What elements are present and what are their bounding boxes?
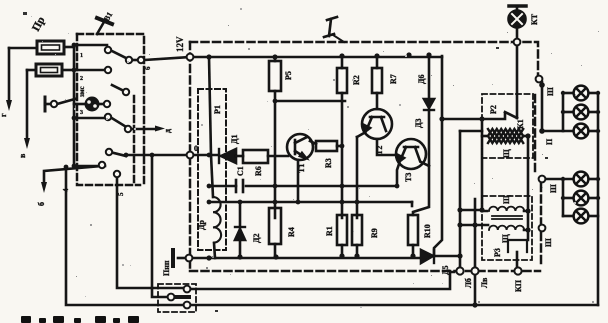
svg-text:3: 3 — [80, 110, 83, 116]
svg-text:Д6: Д6 — [417, 74, 426, 84]
svg-text:12V: 12V — [175, 36, 185, 52]
svg-text:Др: Др — [197, 219, 206, 230]
svg-text:б: б — [37, 202, 46, 206]
svg-text:Д3: Д3 — [414, 118, 423, 128]
svg-text:R7: R7 — [389, 74, 398, 84]
svg-text:Р5: Р5 — [284, 71, 293, 80]
svg-text:К1: К1 — [516, 119, 525, 129]
svg-text:д: д — [163, 129, 172, 133]
svg-text:Лв: Лв — [480, 277, 489, 288]
svg-text:Р2: Р2 — [489, 105, 498, 114]
svg-text:Лб: Лб — [464, 278, 473, 288]
svg-text:Р1: Р1 — [213, 105, 222, 114]
svg-text:R3: R3 — [324, 158, 333, 168]
svg-text:в: в — [18, 153, 27, 158]
svg-text:г: г — [0, 113, 8, 117]
svg-text:КП: КП — [514, 279, 523, 292]
svg-text:змс: змс — [78, 86, 86, 97]
svg-text:R1: R1 — [325, 226, 334, 236]
svg-text:КТ: КТ — [530, 13, 539, 25]
svg-text:Пнп: Пнп — [162, 260, 171, 276]
svg-text:R6: R6 — [254, 166, 263, 176]
svg-text:Щ: Щ — [502, 149, 511, 158]
svg-text:R10: R10 — [423, 224, 432, 238]
svg-text:R9: R9 — [370, 228, 379, 238]
svg-text:П: П — [545, 138, 554, 145]
svg-text:Д5: Д5 — [441, 265, 450, 275]
svg-text:6: 6 — [144, 66, 152, 70]
svg-text:Ш: Ш — [544, 238, 553, 247]
svg-text:Щ: Щ — [502, 195, 511, 204]
svg-text:0: 0 — [194, 144, 198, 153]
svg-text:Щ: Щ — [501, 234, 510, 243]
svg-text:Т1: Т1 — [297, 164, 306, 173]
svg-text:Д1: Д1 — [230, 134, 239, 144]
svg-text:Т3: Т3 — [404, 173, 413, 182]
svg-text:С1: С1 — [236, 166, 245, 176]
svg-text:1: 1 — [80, 53, 83, 59]
svg-text:Т2: Т2 — [375, 146, 384, 155]
svg-text:Ш: Ш — [546, 87, 555, 96]
svg-text:4: 4 — [62, 188, 70, 192]
svg-text:Д2: Д2 — [252, 233, 261, 243]
svg-text:2: 2 — [80, 76, 83, 82]
svg-text:Ш: Ш — [549, 184, 558, 193]
svg-text:Р3: Р3 — [493, 248, 502, 257]
svg-text:R4: R4 — [287, 227, 296, 237]
svg-text:5: 5 — [117, 192, 125, 196]
